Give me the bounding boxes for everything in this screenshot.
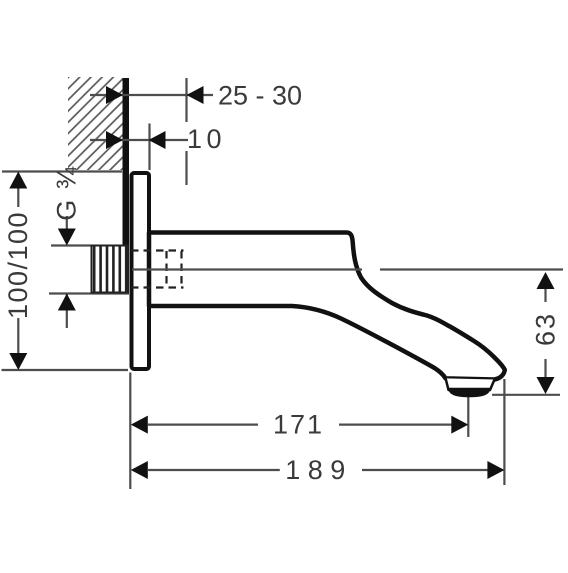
- svg-text:G ¾: G ¾: [52, 165, 82, 221]
- svg-text:171: 171: [273, 410, 324, 440]
- svg-text:189: 189: [285, 455, 353, 485]
- svg-text:100/100: 100/100: [3, 211, 33, 319]
- svg-text:63: 63: [531, 312, 561, 346]
- svg-text:25 - 30: 25 - 30: [218, 81, 302, 111]
- svg-text:10: 10: [187, 124, 226, 154]
